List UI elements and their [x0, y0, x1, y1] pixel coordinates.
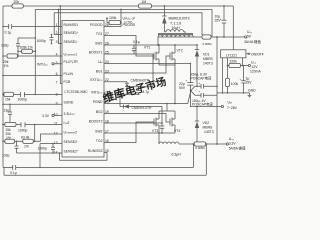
wire output cap gnd column: [216, 37, 218, 144]
wire EXTVcc pin 22: [104, 81, 127, 83]
wire TG2 pin 16 to VT3 gate: [104, 122, 154, 143]
pin 8 ITH1: [56, 92, 58, 96]
svg-text:MBRS1100T3: MBRS1100T3: [169, 17, 190, 21]
svg-text:12V: 12V: [252, 65, 259, 69]
resistor 20k (top left, in rail A): [12, 0, 23, 8]
svg-text:7: 7: [56, 81, 58, 85]
wire pin 14 SENSE2+: [17, 152, 63, 154]
wire pin 8 ITH1 network: [3, 93, 62, 95]
terminal 3.3V output: [226, 137, 246, 151]
node ITH2 vertical junction: [34, 124, 36, 126]
resistor sense 0.01 (ch1): [202, 35, 211, 39]
svg-text:PGND: PGND: [93, 100, 103, 104]
svg-text:BOOST2: BOOST2: [89, 119, 103, 123]
svg-text:63.4k: 63.4k: [21, 136, 30, 140]
capacitor 0.1u (RUN/SS2): [10, 165, 17, 175]
pin 16 TG2: [96, 139, 109, 143]
pin 25 BOOST1: [89, 50, 109, 54]
svg-text:MBRS: MBRS: [203, 57, 214, 61]
node rail A / FCB drop junction: [59, 5, 61, 7]
node sense1 left kelvin: [201, 34, 203, 35]
node pin8 rail junction: [2, 94, 4, 96]
capacitor 180u 4V (3.3V output): [191, 90, 217, 108]
svg-text:SENSE2⁻: SENSE2⁻: [64, 140, 79, 144]
svg-text:TG1: TG1: [96, 32, 103, 36]
svg-text:3: 3: [56, 40, 58, 44]
terminal 12V output: [248, 60, 261, 73]
pin 9 SGND: [56, 101, 74, 106]
wire FCB vertical to pin 7: [60, 6, 62, 84]
wire pin 1 RUN/SS1 to left rail with cap: [3, 26, 62, 28]
node pin12 rail junction: [2, 141, 4, 143]
svg-text:13: 13: [54, 141, 58, 145]
svg-text:220k: 220k: [230, 60, 238, 64]
pin 17 SW2: [95, 129, 109, 133]
capacitor 1u 25V (12V out): [240, 65, 253, 93]
wire RUN/SS2 bottom rail with 0.1u cap: [3, 166, 194, 168]
node PGOOD tap on rail B: [120, 9, 122, 11]
svg-text:VT3: VT3: [152, 129, 158, 133]
transistor VT2 (bottom FET ch1): [170, 45, 183, 65]
node VD2 bottom on 3.3V line: [193, 143, 195, 145]
svg-text:POSCAP电容: POSCAP电容: [192, 102, 214, 107]
svg-text:5: 5: [56, 61, 58, 65]
svg-text:BG1: BG1: [96, 69, 103, 73]
wire LT1121 GND pin down: [222, 58, 224, 93]
capacitor 1000p (sense1 filter): [37, 34, 54, 45]
svg-text:3.3V: 3.3V: [42, 114, 50, 118]
svg-text:VT1: VT1: [144, 45, 150, 49]
node 130p bottom on pin4 wire: [17, 55, 19, 57]
svg-text:0.005Ω: 0.005Ω: [203, 42, 212, 46]
svg-text:T, 1:1.8: T, 1:1.8: [170, 22, 181, 26]
terminal INTVcc to PLLFLTR pin 5: [37, 62, 62, 66]
wire pin 2 vertical: [54, 13, 62, 35]
svg-text:130p: 130p: [1, 44, 9, 48]
svg-text:PGOOD: PGOOD: [123, 23, 136, 27]
transformer T 1:1.8 primary winding 10uH: [158, 22, 193, 38]
svg-text:LT1121: LT1121: [226, 53, 237, 57]
svg-text:RUN/SS1: RUN/SS1: [64, 23, 79, 27]
diode CMDSH3TR (boost1): [125, 78, 150, 94]
svg-text:CMDSH-3TR: CMDSH-3TR: [132, 106, 153, 110]
capacitor 13p (ITH2 to SGND): [4, 104, 13, 126]
wire bottom ground rail: [4, 167, 206, 175]
ground GND symbol: [248, 89, 256, 98]
node OUT junction: [242, 65, 244, 67]
svg-text:1000p: 1000p: [37, 39, 47, 43]
diode MBRS1100T3 (secondary rectifier): [162, 6, 189, 32]
svg-text:SENSE2⁺: SENSE2⁺: [64, 149, 79, 153]
pin 6 PLLIN: [56, 72, 74, 76]
wire BOOST2 pin 18: [104, 107, 162, 124]
svg-text:1000p: 1000p: [18, 98, 28, 102]
svg-text:SENSE1⁻: SENSE1⁻: [64, 40, 79, 44]
inductor 6.3uH (ch2): [159, 142, 181, 157]
resistor 20k 1% (feedback lower, ch2): [5, 132, 15, 143]
resistor 20k 1% (feedback lower, ch1): [3, 54, 18, 68]
capacitor 0.1u (BOOST2): [160, 122, 164, 134]
wire pin 6 PLLIN to rail: [3, 75, 62, 77]
capacitor 1000p (sense2 filter): [38, 143, 56, 154]
svg-text:SW1: SW1: [95, 41, 102, 45]
pin 23 BG1: [96, 69, 109, 73]
svg-text:+: +: [199, 90, 201, 94]
node SENSE2- drop junction: [39, 167, 41, 169]
wire TG1 pin 27 to VT1 gate: [104, 36, 154, 57]
svg-text:ON/OFF: ON/OFF: [251, 52, 264, 56]
svg-text:0.1μ: 0.1μ: [133, 40, 140, 44]
node 10u cap junction on rail A: [223, 5, 225, 7]
wire BG2 pin 19 to VT4 gate: [104, 114, 170, 123]
svg-text:ITH2: ITH2: [64, 121, 70, 125]
capacitor 0.1u (RUN/SS1): [5, 24, 12, 35]
wire pin 3 vertical: [58, 10, 62, 44]
resistor 63.4k 1% (feedback upper, ch2): [21, 136, 33, 149]
diode VD1 MBRS140T3 (ch1 schottky): [195, 45, 214, 86]
wire BG1 pin 23 to VT2 gate: [104, 56, 170, 73]
capacitor 130p (feedforward, ch2): [2, 141, 19, 158]
transistor VT3 (top FET ch2): [152, 111, 159, 133]
transistor VT4 (bottom FET ch2): [170, 111, 180, 133]
svg-text:PLLIN: PLLIN: [64, 72, 74, 76]
svg-text:0.1μ: 0.1μ: [10, 171, 17, 175]
svg-text:20k: 20k: [14, 0, 20, 4]
svg-text:50V: 50V: [179, 86, 186, 90]
svg-text:Uᵢₙ: Uᵢₙ: [98, 60, 103, 64]
capacitor 22u 50V (input): [179, 63, 193, 90]
capacitor 150u 6.3V (5V output): [191, 73, 218, 91]
terminal 5V output: [244, 30, 261, 44]
pin 26 SW1: [95, 41, 109, 45]
node divider junction ch2: [34, 141, 36, 143]
node 105k left: [17, 51, 19, 53]
diode CMDSH-3TR (boost2): [119, 93, 162, 110]
pin 4 UOSENSE1: [56, 52, 77, 56]
pin 1 RUN/SS1: [56, 23, 79, 27]
capacitor 130p (feedforward, ch1): [1, 38, 20, 57]
svg-text:5V: 5V: [247, 35, 252, 39]
wire PGND pin 20: [104, 103, 188, 105]
pin 3 SENSE1-: [56, 40, 79, 44]
svg-text:1000p: 1000p: [38, 147, 48, 151]
node 10u cap junction on 5V line: [223, 36, 225, 38]
wire diagonal to PGND: [188, 89, 191, 104]
svg-text:TG2: TG2: [96, 139, 103, 143]
wire 12V output: [243, 65, 249, 67]
svg-text:RUN/SS2: RUN/SS2: [88, 149, 103, 153]
pin 24 Uin: [98, 60, 109, 64]
pin 2 SENSE1+: [56, 31, 79, 35]
svg-text:POSCAP电容: POSCAP电容: [191, 75, 213, 80]
capacitor 1000p (ITH1): [18, 92, 28, 102]
wire left ground rail: [2, 6, 4, 168]
wire ITH2 to divider vertical: [34, 125, 36, 142]
wire sense2 kelvin loop: [194, 144, 207, 175]
svg-text:105k 1%: 105k 1%: [20, 46, 33, 50]
svg-text:7~28V: 7~28V: [227, 106, 238, 110]
node 105k right: [35, 51, 37, 53]
resistor sense 0.01 (ch2): [194, 142, 206, 146]
svg-text:SENSE1⁺: SENSE1⁺: [64, 31, 79, 35]
resistor 220k (LT1121 divider upper): [228, 60, 243, 68]
pin 7 FCB: [56, 80, 71, 85]
svg-text:Uₒ₂: Uₒ₂: [251, 60, 257, 64]
node ITH1 vertical junction: [35, 94, 37, 96]
node PGOOD resistor tap: [120, 22, 122, 24]
capacitor 4.7u (INTVcc): [134, 86, 150, 95]
pin 19 BG2: [96, 110, 109, 114]
node VT3 source on SW2 rail: [158, 132, 160, 134]
pin 18 BOOST2: [89, 119, 109, 123]
node VT2 drain on SW rail: [174, 44, 176, 46]
pin 12 UOSENSE2: [54, 130, 77, 135]
wire SW1 riser to transformer: [157, 37, 159, 45]
op-amp U1 LTC3728LXMC controller body: [62, 21, 104, 158]
pin 10 3.3VOUT: [54, 112, 76, 117]
wire raw rail to LT1121 IN: [232, 6, 234, 50]
node pin4 rail junction: [2, 55, 4, 57]
terminal 3.3V out pin 10: [42, 114, 62, 118]
wire LT1121 ADJ pin down: [227, 58, 229, 66]
svg-text:1%: 1%: [24, 145, 29, 149]
pin 15 RUN/SS2: [88, 149, 109, 153]
wire sense rail B (SENSE1-): [35, 10, 212, 38]
pin 22 EXTUcc: [90, 78, 109, 82]
transformer secondary winding: [164, 30, 185, 34]
svg-text:PGOOD: PGOOD: [90, 23, 103, 27]
wire ch2 FET drains rail: [159, 104, 175, 112]
capacitor 1000p (ITH2): [18, 122, 28, 132]
wire pin 12 UOSENSE2 divider: [3, 134, 62, 141]
pin 13 SENSE2-: [54, 140, 79, 145]
svg-text:+: +: [199, 81, 201, 85]
svg-text:1%: 1%: [6, 136, 11, 140]
svg-text:1M: 1M: [142, 0, 147, 4]
svg-text:PLLFLTR: PLLFLTR: [64, 60, 79, 64]
svg-text:5A/6A 峰值: 5A/6A 峰值: [229, 145, 246, 150]
wire 5V output line: [193, 36, 245, 38]
svg-text:BG2: BG2: [96, 110, 103, 114]
wire feedback vertical x35 down to ITH1: [34, 38, 36, 94]
svg-text:LTC3728LXMC: LTC3728LXMC: [65, 90, 89, 94]
svg-text:15k: 15k: [5, 97, 11, 101]
resistor 100k (LT1121 divider lower): [225, 66, 238, 93]
wire FET sources to ground column: [159, 65, 175, 104]
svg-text:100k: 100k: [109, 16, 117, 20]
node pin1 rail junction: [2, 26, 4, 28]
pin 27 TG1: [96, 32, 109, 36]
wire SW2 pin 17: [104, 132, 175, 134]
wire pin 11 ITH2 network: [3, 124, 62, 126]
wire INTVcc pin 21: [104, 93, 139, 95]
wire LT1121 OUT pin down: [242, 58, 244, 66]
svg-text:0.1μ: 0.1μ: [5, 31, 12, 35]
node CMDSH3TR anode: [126, 93, 128, 95]
svg-text:12: 12: [54, 132, 58, 136]
svg-text:+: +: [220, 17, 222, 21]
node gnd rail dots: [222, 92, 245, 94]
svg-text:3A/4A 峰值: 3A/4A 峰值: [244, 39, 261, 44]
node VT1 drain on SW rail: [158, 44, 160, 46]
svg-text:0.005Ω: 0.005Ω: [196, 146, 205, 150]
node VT2 source on PGND: [174, 103, 176, 105]
pin 5 PLLFLTR: [56, 60, 79, 65]
node cout1 junction: [216, 36, 218, 38]
node W1 junction: [35, 37, 37, 39]
wire pin 4 UOSENSE1 with 20k divider: [3, 55, 62, 57]
node SENSE2+ link junction: [59, 152, 61, 154]
wire 3.3V output line: [179, 143, 226, 145]
svg-text:VT4: VT4: [174, 129, 180, 133]
svg-text:GND: GND: [248, 89, 256, 93]
svg-text:Uᵢₙ: Uᵢₙ: [228, 101, 233, 105]
svg-text:10μH: 10μH: [172, 26, 181, 30]
svg-text:11: 11: [54, 122, 58, 126]
node SW1 riser junction: [157, 44, 159, 46]
node pin3 tap on rail B: [58, 9, 60, 11]
svg-text:120mA: 120mA: [250, 69, 261, 73]
resistor 100k (PGOOD pull-up): [106, 16, 121, 25]
node input cap common node: [190, 90, 192, 92]
svg-text:VD2: VD2: [203, 121, 210, 125]
resistor 15k (ITH1): [4, 92, 14, 101]
svg-text:+: +: [186, 79, 188, 83]
capacitor 10u 25V (aux raw): [215, 6, 227, 37]
svg-text:3.3V: 3.3V: [229, 141, 237, 145]
watermark red characters: [101, 74, 168, 106]
svg-text:6.3μH: 6.3μH: [172, 153, 182, 157]
svg-text:VT2: VT2: [177, 49, 183, 53]
svg-text:9: 9: [56, 101, 58, 105]
wire pin 9 SGND to rail: [3, 103, 62, 105]
svg-text:14: 14: [54, 151, 58, 155]
node VD1 top on SW rail: [196, 44, 198, 46]
pin 14 SENSE2+: [54, 149, 79, 154]
capacitor 0.1u (BOOST1): [132, 40, 140, 54]
svg-text:25V: 25V: [246, 81, 253, 85]
op-amp U2 LT1121 regulator: [221, 50, 246, 58]
pin 21 INTUcc: [91, 91, 108, 95]
svg-text:SW2: SW2: [95, 129, 102, 133]
svg-text:Uₒ₃: Uₒ₃: [229, 137, 235, 141]
wire PGOOD pin 28: [104, 10, 121, 27]
svg-text:SGND: SGND: [64, 101, 74, 105]
svg-text:100k: 100k: [231, 82, 239, 86]
wire boost1 diode rail to BOOST1: [127, 54, 153, 87]
node ADJ junction: [227, 65, 229, 67]
svg-text:13p: 13p: [4, 109, 10, 113]
svg-text:130p: 130p: [2, 154, 10, 158]
svg-text:1%: 1%: [4, 64, 9, 68]
wire B-corner vertical to feedback network: [18, 10, 35, 39]
wire top rail A (FCB divider / secondary rail): [3, 5, 233, 7]
resistor 105k 1% (feedback upper, ch1): [18, 46, 35, 54]
node 3.3V line junctions: [205, 143, 218, 145]
svg-text:140T3: 140T3: [204, 130, 214, 134]
pin 20 PGND: [93, 100, 109, 104]
wire Uin input terminal: [190, 89, 237, 110]
svg-text:MBRS: MBRS: [203, 126, 214, 130]
svg-text:FCB: FCB: [64, 80, 72, 84]
node ch2 drain junction on PGND wire: [166, 103, 168, 105]
wire BOOST1 pin 25: [104, 53, 153, 55]
svg-text:1000p: 1000p: [18, 128, 28, 132]
node diode junction on rail A: [164, 5, 166, 7]
wire SW2 riser to inductor: [158, 133, 160, 144]
pin 28 PGOOD: [90, 23, 109, 27]
wire LT1121 ground rail: [217, 92, 250, 94]
diode VD2 MBRS140T3 (ch2 schottky): [195, 107, 214, 143]
wire SW1 pin 26 rail: [104, 44, 197, 46]
svg-text:+: +: [240, 78, 242, 82]
wire Uin pin 24: [104, 63, 190, 65]
pin 11 ITH2: [54, 121, 69, 126]
wire SENSE2 link rail under IC: [60, 153, 107, 161]
wire sense rail C (SENSE1+): [54, 13, 202, 35]
resistor 1M (top center, in rail A): [139, 0, 152, 8]
label ON/OFF with arrow: [246, 52, 264, 56]
resistor 15k (ITH2): [5, 122, 16, 132]
node pin9 rail junction: [2, 104, 4, 106]
node pin6 rail junction: [2, 75, 4, 77]
node pin11 rail junction: [2, 124, 4, 126]
svg-text:BOOST1: BOOST1: [89, 50, 103, 54]
wire pin 13 SENSE2-: [40, 144, 62, 168]
transistor VT1 (top FET ch1): [144, 45, 159, 65]
svg-text:140T3: 140T3: [203, 62, 213, 66]
svg-text:VD1: VD1: [203, 53, 210, 57]
svg-text:Uₒ₁: Uₒ₁: [247, 30, 253, 34]
